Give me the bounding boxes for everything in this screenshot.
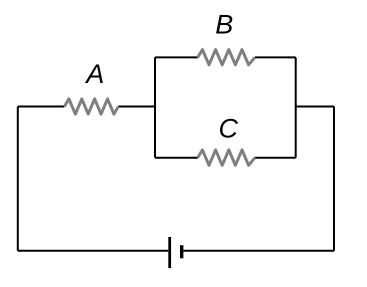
svg-text:C: C [218, 114, 238, 144]
svg-text:B: B [215, 10, 233, 40]
svg-text:A: A [84, 59, 104, 89]
